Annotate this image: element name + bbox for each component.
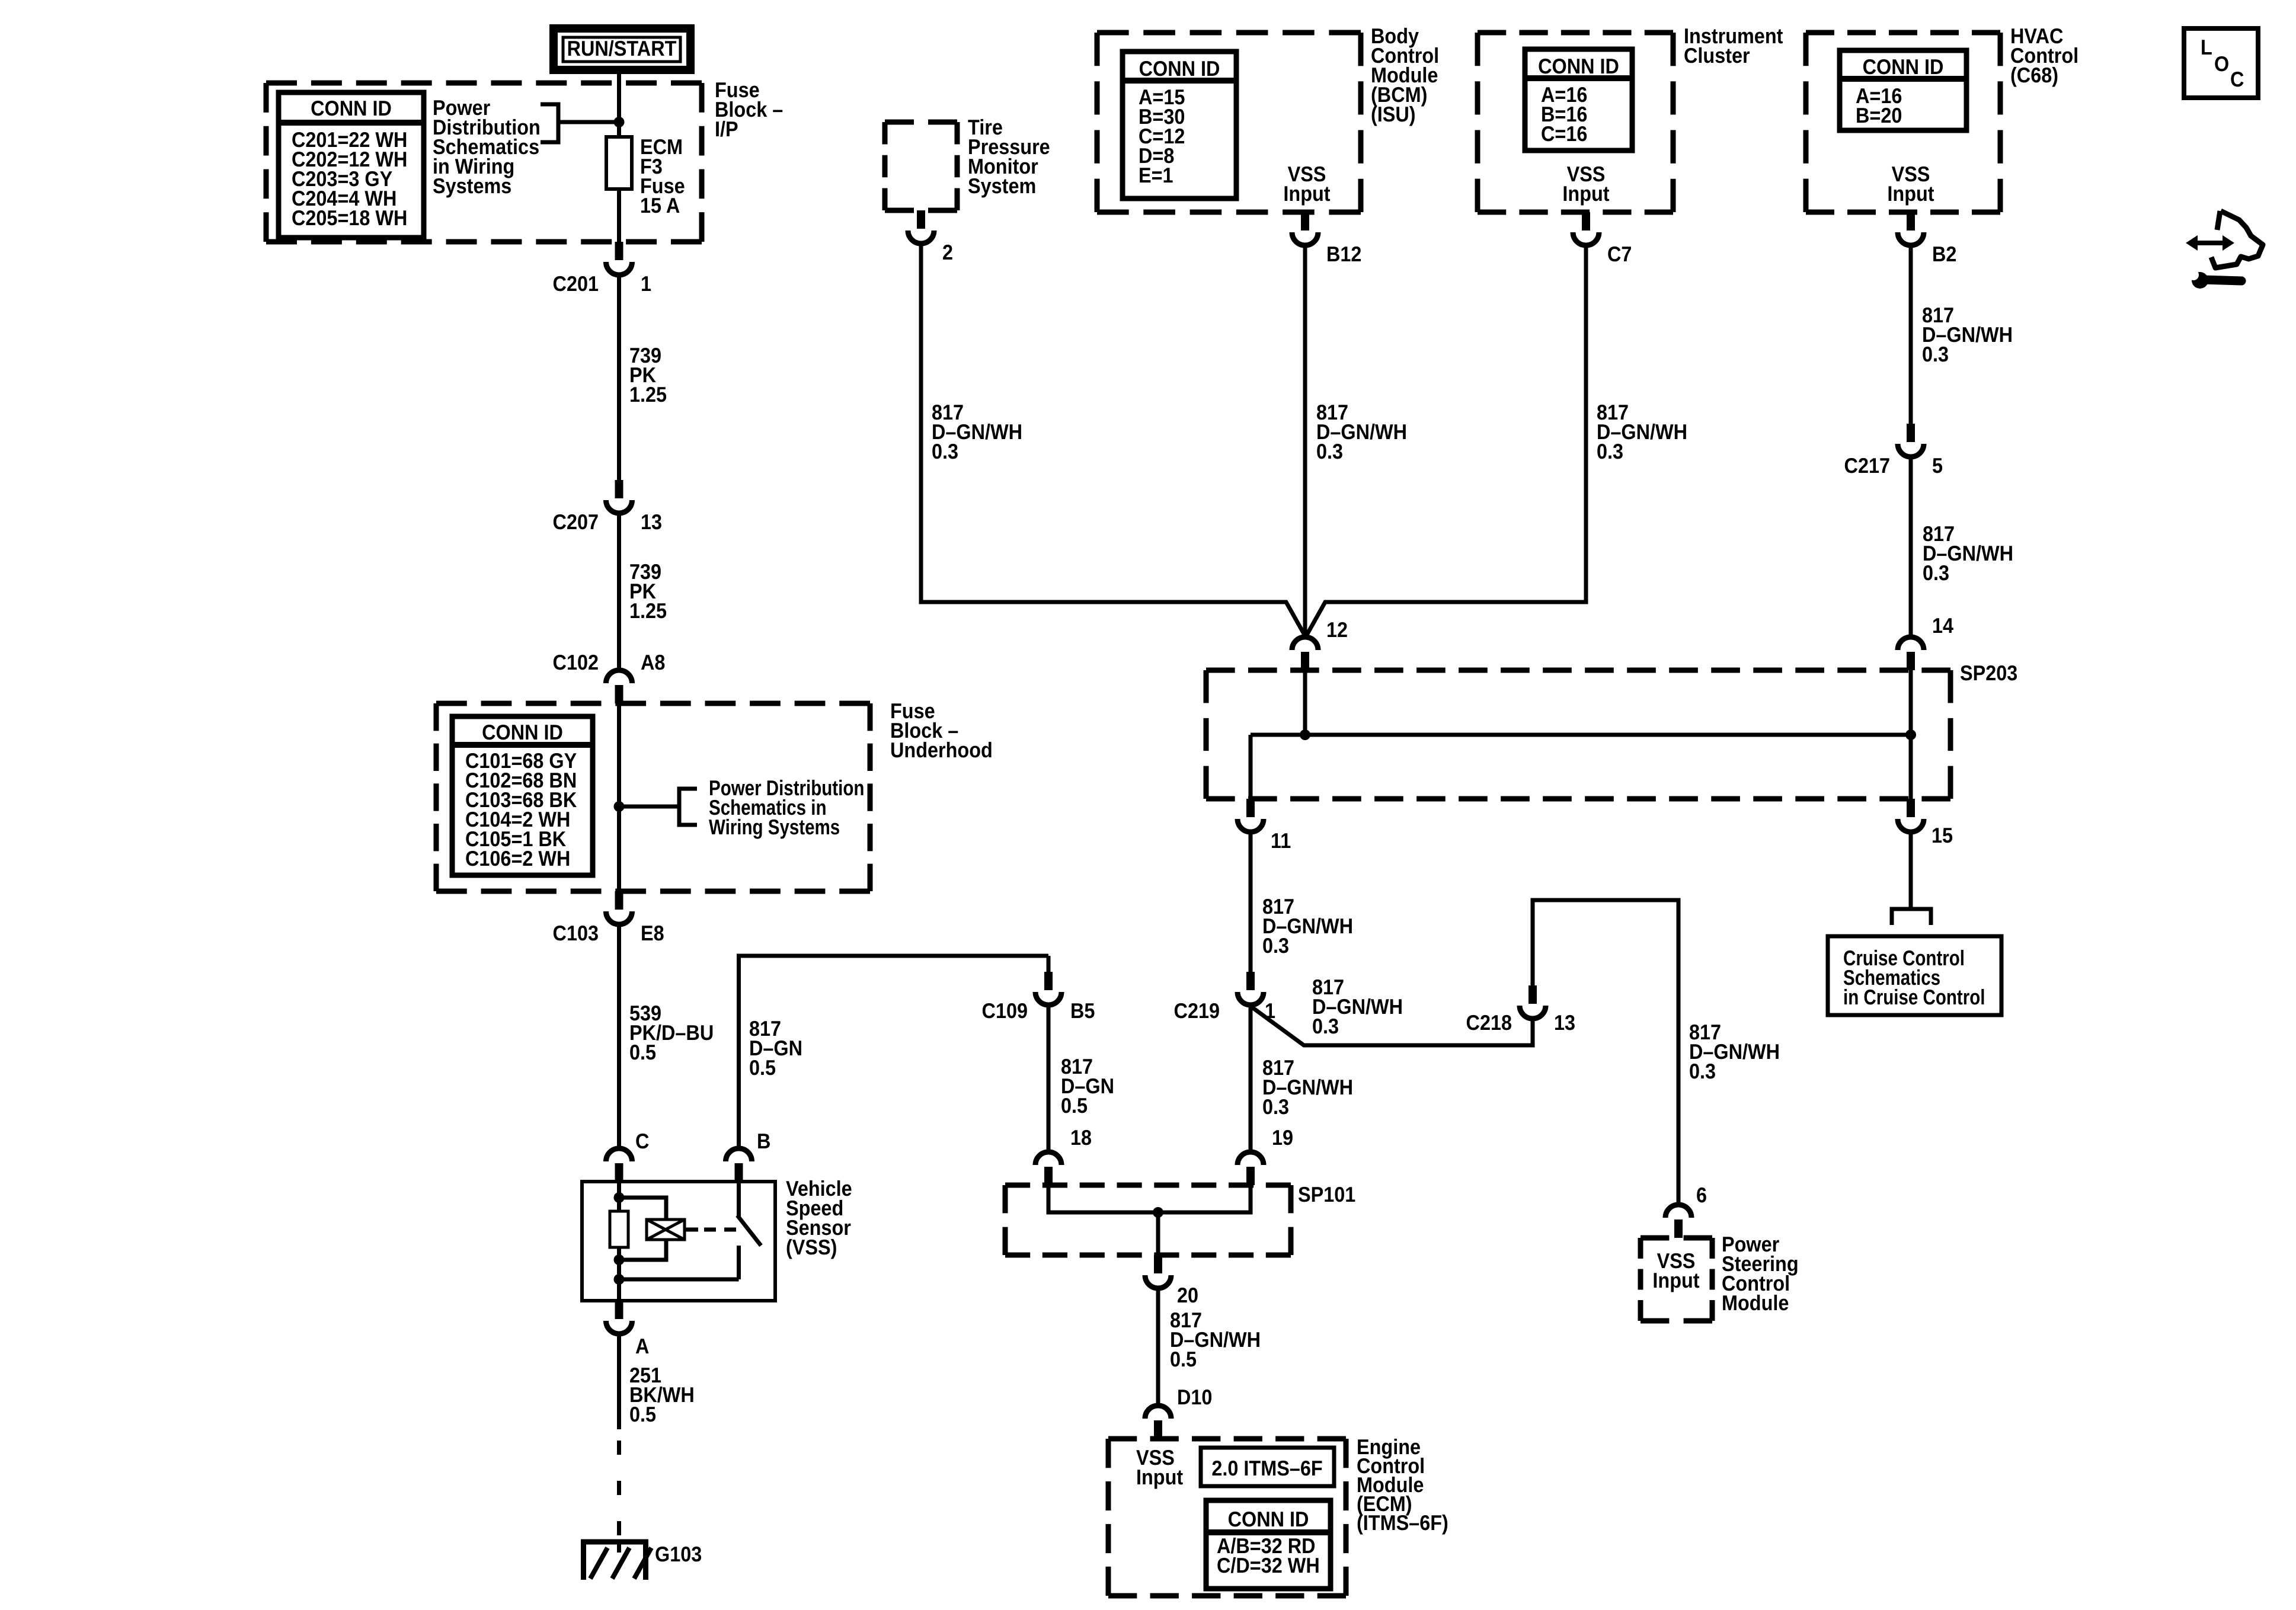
SP101 internal bus xyxy=(1048,1185,1251,1212)
svg-text:0.3: 0.3 xyxy=(1312,1014,1339,1038)
CONN ID table (fuse block underhood) xyxy=(452,716,593,875)
svg-text:0.5: 0.5 xyxy=(1170,1347,1197,1371)
wire C to A inside VSS xyxy=(617,1182,621,1301)
svg-text:6: 6 xyxy=(1696,1183,1707,1207)
svg-text:Input: Input xyxy=(1562,181,1609,206)
svg-text:0.5: 0.5 xyxy=(629,1402,656,1426)
svg-text:CONN ID: CONN ID xyxy=(311,96,392,120)
junction dot SP203 (14) xyxy=(1905,729,1916,740)
svg-text:0.3: 0.3 xyxy=(1597,439,1623,463)
svg-text:C7: C7 xyxy=(1607,242,1632,266)
connector 18 (into SP101) xyxy=(1044,1167,1053,1185)
svg-text:G103: G103 xyxy=(655,1542,702,1566)
svg-text:B12: B12 xyxy=(1326,242,1361,266)
ground G103 xyxy=(581,1539,648,1545)
connector C207 pin 13 xyxy=(615,480,623,498)
pointer icon (double arrow) xyxy=(2196,241,2224,245)
splice pack SP203 dashed box xyxy=(1206,668,1950,673)
wire 15 to cruise control xyxy=(1909,831,1913,908)
CONN ID table (HVAC) xyxy=(1840,50,1966,130)
svg-text:CONN ID: CONN ID xyxy=(1538,54,1619,78)
wire C109 to 18 xyxy=(1047,1004,1051,1151)
svg-text:C106=2 WH: C106=2 WH xyxy=(465,846,570,870)
svg-text:I/P: I/P xyxy=(715,117,738,141)
wire through underhood box xyxy=(617,703,621,891)
svg-text:SP101: SP101 xyxy=(1298,1182,1355,1206)
svg-text:A8: A8 xyxy=(641,650,665,674)
svg-text:(VSS): (VSS) xyxy=(786,1235,837,1259)
svg-text:19: 19 xyxy=(1272,1125,1293,1150)
instrument cluster dashed box xyxy=(1478,30,1673,36)
svg-text:C103: C103 xyxy=(553,921,599,945)
VSS box xyxy=(582,1182,775,1301)
connector A (VSS) xyxy=(615,1301,623,1319)
svg-text:C201: C201 xyxy=(553,271,599,296)
svg-text:0.5: 0.5 xyxy=(749,1055,776,1080)
svg-text:13: 13 xyxy=(641,510,662,534)
wire bracket to junction xyxy=(558,120,619,124)
HVAC control dashed box xyxy=(1806,30,2000,36)
PSCM VSS input dashed box xyxy=(1641,1235,1712,1241)
svg-text:(ITMS–6F): (ITMS–6F) xyxy=(1357,1510,1448,1535)
body control module dashed box xyxy=(1097,30,1361,36)
wire C219 to 19 xyxy=(1249,1004,1253,1151)
connector 6 (PSCM) xyxy=(1674,1219,1683,1238)
svg-text:0.5: 0.5 xyxy=(629,1040,656,1064)
svg-text:0.3: 0.3 xyxy=(932,439,958,463)
svg-text:SP203: SP203 xyxy=(1960,661,2017,685)
svg-text:Systems: Systems xyxy=(433,174,511,198)
CONN ID table (BCM) xyxy=(1123,52,1236,199)
wire junction to bracket xyxy=(619,805,680,809)
svg-text:0.3: 0.3 xyxy=(1262,1094,1289,1119)
junction dot SP101 xyxy=(1153,1207,1163,1218)
power source symbol RUN/START xyxy=(554,28,690,70)
svg-text:B: B xyxy=(757,1129,770,1153)
junction dot VSS bottom xyxy=(614,1274,625,1285)
connector D10 (ECM) xyxy=(1154,1420,1162,1439)
CONN ID table (ECM) xyxy=(1206,1500,1331,1589)
svg-text:12: 12 xyxy=(1326,617,1348,642)
svg-text:D10: D10 xyxy=(1177,1385,1212,1409)
svg-text:C: C xyxy=(635,1129,649,1153)
svg-text:5: 5 xyxy=(1932,453,1943,478)
bracket (note callout) xyxy=(541,104,558,142)
mechanical link (dashed) xyxy=(704,1228,738,1232)
svg-text:1.25: 1.25 xyxy=(629,382,667,406)
connector C109 pin B5 xyxy=(1044,972,1053,990)
splice pack SP101 dashed box xyxy=(1005,1183,1291,1188)
svg-text:C207: C207 xyxy=(553,510,599,534)
svg-text:Input: Input xyxy=(1283,181,1330,206)
wrench icon xyxy=(2192,272,2208,289)
wire B up and to C109 xyxy=(739,956,1049,1149)
CONN ID table (instrument cluster) xyxy=(1525,49,1632,151)
svg-text:CONN ID: CONN ID xyxy=(1228,1507,1309,1531)
svg-text:C109: C109 xyxy=(982,998,1028,1023)
svg-text:Input: Input xyxy=(1136,1465,1183,1489)
svg-text:20: 20 xyxy=(1177,1283,1198,1307)
switch (VSS) moving contact xyxy=(737,1182,741,1218)
svg-text:18: 18 xyxy=(1070,1125,1092,1150)
connector C217 pin 5 xyxy=(1907,424,1915,442)
switch fixed contact and return wire xyxy=(737,1246,741,1279)
connector C201 pin 1 xyxy=(615,242,623,260)
wire TPMS to junction 12 xyxy=(921,243,1305,636)
sensor element (crossed box) xyxy=(647,1219,685,1240)
connector C7 (IC) xyxy=(1582,212,1590,231)
svg-text:CONN ID: CONN ID xyxy=(1139,56,1220,81)
wire fuse to C201 xyxy=(617,189,621,242)
svg-text:in Cruise Control: in Cruise Control xyxy=(1843,985,1985,1009)
svg-text:15 A: 15 A xyxy=(640,193,680,217)
svg-text:2: 2 xyxy=(942,240,953,264)
connector B (VSS) xyxy=(735,1163,743,1182)
svg-text:RUN/START: RUN/START xyxy=(567,36,677,60)
svg-text:L: L xyxy=(2201,35,2212,59)
junction dot VSS mid xyxy=(614,1254,625,1265)
connector C219 pin 1 xyxy=(1246,972,1255,990)
connector 12 (into SP203) xyxy=(1301,652,1309,670)
svg-text:A: A xyxy=(635,1334,649,1358)
svg-text:13: 13 xyxy=(1554,1010,1575,1035)
fuse block I/P dashed box xyxy=(266,81,702,86)
tire pressure monitor system dashed box xyxy=(885,120,957,125)
junction dot VSS top xyxy=(614,1192,625,1203)
svg-text:Cluster: Cluster xyxy=(1684,43,1750,68)
fuse block underhood dashed box xyxy=(436,701,870,706)
svg-text:0.3: 0.3 xyxy=(1689,1059,1716,1083)
connector 20 (SP101 out) xyxy=(1154,1255,1162,1273)
svg-text:System: System xyxy=(968,174,1036,198)
svg-text:0.3: 0.3 xyxy=(1262,933,1289,958)
svg-text:E8: E8 xyxy=(641,921,664,945)
wire C218 to PSCM xyxy=(1533,900,1678,1204)
svg-text:O: O xyxy=(2214,52,2229,76)
terminal fork (cruise control) xyxy=(1892,909,1931,925)
connector 19 (into SP101) xyxy=(1246,1167,1255,1185)
wire 739 PK 1.25 (upper) xyxy=(617,274,621,480)
svg-text:0.3: 0.3 xyxy=(1316,439,1343,463)
svg-text:B5: B5 xyxy=(1070,998,1095,1023)
connector C (VSS) xyxy=(615,1163,623,1182)
svg-text:0.5: 0.5 xyxy=(1061,1093,1088,1118)
svg-text:C217: C217 xyxy=(1844,453,1890,478)
svg-text:CONN ID: CONN ID xyxy=(482,720,563,744)
engine control module dashed box xyxy=(1108,1436,1346,1442)
junction dot (underhood) xyxy=(614,801,625,812)
svg-text:C=16: C=16 xyxy=(1541,121,1587,146)
connector B2 (HVAC) xyxy=(1907,212,1915,231)
SP203 internal bus xyxy=(1303,670,1307,735)
wire 251 BK/WH 0.5 xyxy=(617,1333,621,1429)
wire B2 to C217 xyxy=(1909,245,1913,424)
svg-text:Wiring Systems: Wiring Systems xyxy=(709,815,840,839)
wire 11 to C219 xyxy=(1249,831,1253,972)
svg-text:Underhood: Underhood xyxy=(890,738,993,762)
bracket (underhood note callout) xyxy=(679,789,697,825)
svg-text:(ISU): (ISU) xyxy=(1371,102,1416,126)
svg-text:Input: Input xyxy=(1652,1268,1699,1292)
svg-text:11: 11 xyxy=(1271,828,1291,853)
svg-text:Input: Input xyxy=(1887,181,1934,206)
wire stub above C109 xyxy=(1047,956,1051,973)
svg-text:C102: C102 xyxy=(553,650,599,674)
svg-text:CONN ID: CONN ID xyxy=(1863,55,1944,79)
connector 15 (SP203 out) xyxy=(1907,799,1915,817)
fuse F3 symbol xyxy=(606,137,632,189)
connector 11 (SP203 out) xyxy=(1246,799,1255,817)
connector B12 (BCM) xyxy=(1301,212,1309,231)
svg-text:0.3: 0.3 xyxy=(1922,342,1949,366)
ECM variant box 2.0 ITMS-6F xyxy=(1201,1448,1334,1486)
wire IC to junction 12 xyxy=(1306,245,1586,636)
svg-text:B2: B2 xyxy=(1932,242,1956,266)
svg-text:E=1: E=1 xyxy=(1139,163,1173,187)
svg-text:14: 14 xyxy=(1932,613,1953,638)
svg-text:B=20: B=20 xyxy=(1856,103,1902,127)
svg-text:1: 1 xyxy=(641,271,651,296)
svg-text:C205=18 WH: C205=18 WH xyxy=(292,206,407,230)
wire BCM to junction 12 xyxy=(1303,245,1307,636)
connector 2 (TPMS) xyxy=(917,210,925,229)
svg-text:Module: Module xyxy=(1722,1291,1789,1315)
connector C218 pin 13 xyxy=(1528,985,1537,1004)
wire sensor coil branch bottom xyxy=(619,1240,667,1260)
LOC legend box xyxy=(2184,28,2258,98)
wire RUN/START to fuse F3 xyxy=(617,73,621,139)
junction dot xyxy=(614,117,625,127)
svg-text:1.25: 1.25 xyxy=(629,598,667,623)
resistor (VSS) xyxy=(610,1211,628,1247)
pointer icon (outline shape) xyxy=(2211,211,2263,268)
wire sensor coil branch top xyxy=(619,1198,667,1219)
wire 20 to D10 xyxy=(1156,1288,1160,1405)
cruise control reference box xyxy=(1828,936,2001,1015)
wire C219 branch to C218 xyxy=(1251,1006,1533,1045)
svg-text:15: 15 xyxy=(1932,823,1953,847)
CONN ID table (fuse block I/P) xyxy=(279,92,424,238)
svg-text:C/D=32 WH: C/D=32 WH xyxy=(1217,1553,1320,1577)
svg-text:C: C xyxy=(2230,67,2244,91)
wire 739 PK 1.25 (lower) xyxy=(617,513,621,670)
wire C217 to 14 xyxy=(1909,456,1913,636)
connector 14 (into SP203) xyxy=(1907,652,1915,670)
junction dot SP203 (12) xyxy=(1300,729,1310,740)
svg-text:(C68): (C68) xyxy=(2010,63,2058,87)
connector C103 pin E8 xyxy=(615,891,623,910)
svg-text:2.0 ITMS–6F: 2.0 ITMS–6F xyxy=(1211,1456,1322,1480)
wire 539 PK/D-BU 0.5 xyxy=(617,924,621,1149)
svg-text:C218: C218 xyxy=(1466,1010,1512,1035)
connector C102 pin A8 xyxy=(615,685,623,703)
svg-text:C219: C219 xyxy=(1174,998,1220,1023)
svg-text:0.3: 0.3 xyxy=(1923,561,1949,585)
wire to ground (dashed) xyxy=(617,1441,621,1542)
